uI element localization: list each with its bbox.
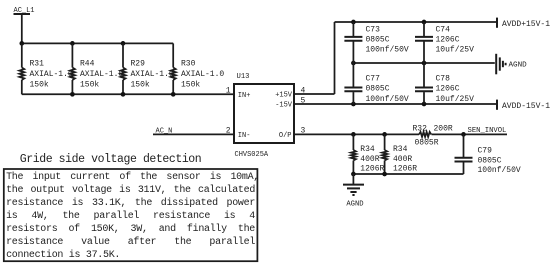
svg-text:IN-: IN-: [238, 132, 251, 140]
svg-text:AGND: AGND: [346, 200, 363, 208]
wire -15V rail from pin 5: [294, 103, 497, 105]
junction dot C73 top: [351, 20, 356, 25]
svg-text:resistors of 150K, 3W, and fin: resistors of 150K, 3W, and finally the: [6, 223, 255, 235]
junction dot AC_L1/R31: [19, 41, 24, 46]
wire AC_L1 vertical: [21, 14, 23, 43]
svg-text:the output voltage is 311V, th: the output voltage is 311V, the calculat…: [6, 184, 255, 196]
svg-text:2: 2: [226, 127, 231, 136]
junction dot R34b top: [382, 132, 387, 137]
node AVDD-15V-1 port: [497, 100, 550, 111]
svg-text:100nf/50V: 100nf/50V: [366, 45, 409, 54]
capacitor C73: [344, 22, 409, 63]
note box border: [4, 169, 258, 261]
svg-text:R32: R32: [413, 124, 428, 133]
svg-text:R44: R44: [80, 60, 95, 69]
svg-text:1206R: 1206R: [360, 165, 384, 174]
svg-text:C73: C73: [366, 25, 381, 34]
svg-text:400R: 400R: [360, 155, 379, 164]
capacitor C77: [344, 63, 409, 104]
resistor R34 (left): [351, 134, 385, 174]
resistor R30: [171, 43, 225, 94]
svg-text:200R: 200R: [434, 124, 453, 133]
svg-text:100nf/50V: 100nf/50V: [478, 166, 521, 175]
svg-text:IN+: IN+: [238, 92, 251, 100]
junction dot C78 bottom: [422, 102, 427, 107]
svg-text:100nf/50V: 100nf/50V: [366, 95, 409, 104]
svg-text:400R: 400R: [393, 155, 412, 164]
wire riser up to +15V rail: [334, 22, 336, 94]
junction dot C77 bottom: [351, 102, 356, 107]
svg-text:AVDD-15V-1: AVDD-15V-1: [502, 102, 550, 111]
junction dot C79 top: [461, 132, 466, 137]
svg-text:0805C: 0805C: [366, 35, 390, 44]
svg-text:resistance is 33.1K, the dissi: resistance is 33.1K, the dissipated powe…: [6, 197, 255, 209]
svg-text:0805C: 0805C: [478, 156, 502, 165]
svg-text:SEN_INVOL: SEN_INVOL: [468, 127, 507, 135]
svg-text:-15V: -15V: [275, 102, 293, 110]
wire top bus of resistor bank: [22, 42, 173, 44]
junction dot C73 bottom: [351, 61, 356, 66]
svg-text:O/P: O/P: [279, 132, 292, 140]
svg-text:C78: C78: [436, 75, 451, 84]
ground AGND (below R34): [343, 174, 364, 208]
svg-text:C77: C77: [366, 75, 381, 84]
junction dot top R29: [121, 41, 126, 46]
junction dot C74 bottom: [422, 61, 427, 66]
svg-text:R31: R31: [30, 60, 45, 69]
svg-text:C79: C79: [478, 147, 493, 156]
wire bottom bus to pin 1: [22, 93, 234, 95]
junction dot R34b bottom: [382, 172, 387, 177]
junction dot bottom R29: [121, 92, 126, 97]
svg-text:AXIAL-1.0: AXIAL-1.0: [30, 70, 73, 79]
svg-text:AVDD+15V-1: AVDD+15V-1: [502, 20, 550, 29]
svg-text:R34: R34: [360, 145, 375, 154]
wire ground bus under R34s and C79: [353, 173, 463, 175]
wire AGND middle rail: [353, 62, 494, 64]
wire O/P pin 3 output line: [294, 133, 419, 135]
ground AGND (right, sideways earth): [496, 54, 527, 75]
resistor R32: [413, 124, 453, 147]
node AC_L1 port label: [14, 7, 35, 15]
svg-text:connection is 37.5K.: connection is 37.5K.: [6, 249, 120, 261]
svg-text:AXIAL-1.0: AXIAL-1.0: [181, 70, 224, 79]
capacitor C74: [415, 22, 474, 63]
junction dot bottom R44: [70, 92, 75, 97]
svg-text:150k: 150k: [131, 81, 150, 90]
svg-text:10uf/25V: 10uf/25V: [436, 95, 475, 104]
junction dot top R44: [70, 41, 75, 46]
svg-text:0805C: 0805C: [366, 85, 390, 94]
svg-text:+15V: +15V: [275, 92, 293, 100]
IC U13 voltage sensor CHVS025A: [234, 73, 294, 159]
svg-text:10uf/25V: 10uf/25V: [436, 45, 475, 54]
svg-text:150k: 150k: [30, 81, 49, 90]
junction dot R34a top: [351, 132, 356, 137]
svg-text:150k: 150k: [80, 81, 99, 90]
capacitor C78: [415, 63, 474, 104]
node AVDD+15V-1 port: [497, 18, 550, 29]
svg-text:resistance value after the par: resistance value after the parallel: [6, 236, 255, 248]
junction dot bottom R30: [171, 92, 176, 97]
svg-text:1206C: 1206C: [436, 35, 460, 44]
capacitor C79: [455, 134, 521, 174]
svg-text:1: 1: [226, 87, 231, 96]
svg-text:U13: U13: [237, 73, 250, 81]
svg-text:R29: R29: [131, 60, 146, 69]
junction dot R34a bottom: [351, 172, 356, 177]
junction dot C74 top: [422, 20, 427, 25]
svg-text:AGND: AGND: [509, 61, 528, 69]
svg-text:AXIAL-1.0: AXIAL-1.0: [131, 70, 174, 79]
svg-text:The input current of the senso: The input current of the sensor is 10mA,: [6, 171, 259, 183]
wire AC_N to pin 2: [153, 133, 234, 135]
resistor R34 (right): [382, 134, 417, 174]
svg-text:R30: R30: [181, 60, 196, 69]
svg-text:0805R: 0805R: [415, 139, 439, 148]
svg-text:Gride side voltage detection: Gride side voltage detection: [20, 153, 201, 166]
svg-text:R34: R34: [393, 145, 408, 154]
wire pin 4 (+15V) to riser: [294, 93, 335, 95]
resistor R44: [70, 43, 124, 94]
svg-text:C74: C74: [436, 25, 451, 34]
svg-text:AXIAL-1.0: AXIAL-1.0: [80, 70, 123, 79]
resistor R29: [121, 43, 174, 94]
svg-text:is 4W, the parallel resistance: is 4W, the parallel resistance is 4: [6, 210, 255, 222]
svg-text:1206R: 1206R: [393, 165, 417, 174]
svg-text:150k: 150k: [181, 81, 200, 90]
svg-text:CHVS025A: CHVS025A: [235, 151, 269, 159]
resistor R31: [19, 43, 73, 94]
svg-text:1206C: 1206C: [436, 85, 460, 94]
wire R32 to SEN_INVOL: [432, 133, 508, 135]
wire +15V top rail: [335, 21, 498, 23]
